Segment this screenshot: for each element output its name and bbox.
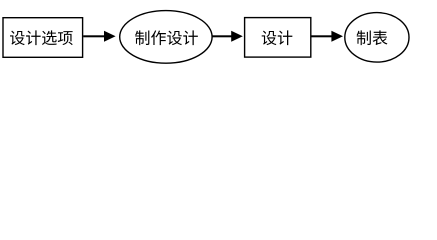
process box "设计" (245, 18, 311, 58)
arrow 1 shaft (83, 35, 105, 37)
arrow 3 head (331, 31, 343, 42)
arrow 3 shaft (311, 35, 333, 37)
arrow 2 head (231, 31, 243, 42)
label 制作设计 (135, 30, 198, 45)
label 设计选项 (10, 30, 73, 45)
terminator ellipse "制表" (345, 13, 409, 63)
terminator ellipse "制作设计" (120, 11, 212, 64)
label 设计 (262, 30, 293, 45)
flowchart: 设计选项 -> 制作设计 -> 设计 -> 制表 (0, 0, 437, 68)
arrow 1 head (104, 31, 116, 42)
label 制表 (357, 30, 388, 45)
arrow 2 shaft (212, 35, 233, 37)
process box "设计选项" (3, 18, 83, 58)
